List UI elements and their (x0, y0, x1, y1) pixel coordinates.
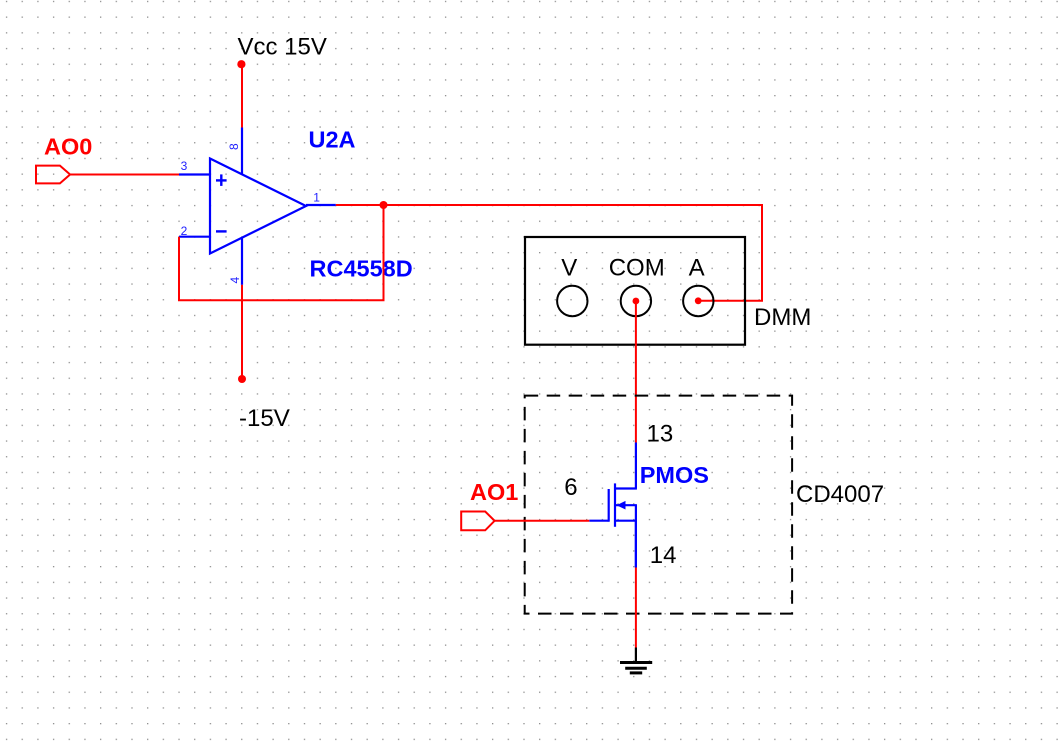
svg-text:COM: COM (609, 254, 665, 281)
svg-text:6: 6 (564, 474, 577, 501)
svg-text:RC4558D: RC4558D (310, 255, 413, 281)
pin 14 (636, 521, 677, 569)
terminal V (557, 254, 587, 316)
pin 6 (564, 474, 608, 521)
pin 1 (306, 191, 336, 206)
wire COM to PMOS drain (635, 301, 637, 443)
svg-text:4: 4 (228, 276, 242, 283)
connector AO1 (461, 479, 518, 530)
svg-text:CD4007: CD4007 (796, 481, 884, 508)
svg-text:V: V (561, 254, 577, 281)
junction output node (380, 201, 388, 209)
svg-text:1: 1 (313, 191, 320, 205)
op-amp U2A (210, 159, 306, 254)
pin 4 (228, 238, 242, 285)
svg-text:DMM: DMM (754, 304, 811, 331)
svg-text:8: 8 (227, 143, 241, 150)
terminal COM (609, 254, 665, 316)
svg-text:14: 14 (650, 542, 677, 569)
svg-text:Vcc 15V: Vcc 15V (238, 34, 327, 61)
svg-text:AO0: AO0 (44, 134, 92, 160)
pin 13 (636, 420, 673, 488)
pin 2 (179, 224, 210, 238)
connector AO0 (36, 134, 92, 184)
svg-text:2: 2 (181, 224, 188, 238)
svg-text:PMOS: PMOS (640, 462, 709, 488)
wire pin 4 to -15V (241, 285, 243, 379)
transistor PMOS (609, 483, 637, 567)
svg-text:13: 13 (647, 420, 674, 447)
power terminal Vcc 15V (237, 34, 327, 69)
wire AO1 to gate (495, 520, 590, 522)
svg-text:A: A (689, 254, 705, 281)
terminal A (683, 254, 713, 316)
svg-text:3: 3 (181, 159, 188, 173)
pin 8 (227, 128, 242, 175)
IC boundary CD4007 (525, 396, 792, 614)
wire source to ground (635, 568, 637, 648)
ground (620, 648, 652, 673)
wire AO0 to pin 3 (70, 174, 179, 176)
pin 3 (179, 159, 210, 175)
power terminal -15V (238, 375, 290, 432)
svg-text:U2A: U2A (309, 126, 356, 152)
wire Vcc to pin 8 (241, 64, 243, 127)
wire feedback pin 1 to pin 2 (179, 205, 384, 300)
svg-text:AO1: AO1 (470, 479, 518, 505)
DMM panel (525, 237, 745, 345)
wire output to DMM A (336, 205, 762, 301)
svg-text:-15V: -15V (239, 405, 290, 432)
